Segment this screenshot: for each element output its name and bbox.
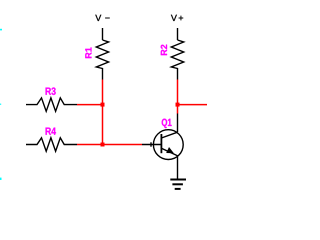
resistor R4 bbox=[26, 128, 77, 152]
resistor R2 bbox=[161, 40, 184, 80]
Q1 base pin lead bbox=[142, 144, 161, 146]
resistor R1 bbox=[85, 40, 108, 80]
ground bar 1 bbox=[170, 179, 186, 181]
ground bbox=[170, 180, 186, 189]
value label R1 bbox=[85, 47, 91, 58]
value label R4 bbox=[46, 128, 56, 135]
wire R2 output down bbox=[177, 80, 179, 114]
power net V+ label bbox=[171, 15, 183, 21]
wire V- stub bbox=[102, 28, 104, 40]
transistor Q1 bbox=[142, 114, 183, 160]
Q1 body circle bbox=[153, 130, 183, 160]
margin tick cyan bottom bbox=[0, 178, 2, 180]
value label R3 bbox=[46, 87, 56, 94]
ref label Q1 bbox=[162, 119, 172, 128]
value label R2 bbox=[161, 45, 167, 56]
wire R4 output to base bbox=[77, 144, 142, 146]
margin tick cyan top bbox=[0, 29, 2, 31]
Q1 base pin end tick bbox=[150, 142, 152, 146]
Q1 collector diagonal bbox=[161, 132, 177, 138]
resistor R4 zigzag body bbox=[26, 138, 77, 151]
wire V+ stub bbox=[177, 28, 179, 40]
Q1 collector pin bbox=[177, 114, 179, 133]
margin tick cyan middle bbox=[0, 104, 1, 105]
junction node R3/left net bbox=[101, 103, 105, 107]
Q1 base bar bbox=[160, 134, 162, 153]
wire R3 output to node bbox=[77, 104, 103, 106]
ground bar 3 bbox=[175, 188, 181, 190]
resistor R3 bbox=[26, 87, 77, 111]
Q1 emitter diagonal bbox=[161, 148, 177, 156]
wire emitter to ground bbox=[177, 156, 179, 180]
ground bar 2 bbox=[172, 183, 183, 185]
power net V- label bbox=[95, 15, 109, 21]
Q1 emitter arrow bbox=[166, 147, 174, 153]
resistor R3 zigzag body bbox=[26, 98, 77, 111]
junction node collector net bbox=[176, 103, 180, 107]
wire collector net right bbox=[178, 104, 208, 106]
resistor R2 zigzag body bbox=[171, 40, 183, 80]
resistor R1 zigzag body bbox=[96, 40, 108, 80]
wire left vertical net bbox=[102, 80, 104, 145]
junction node R4/left net bbox=[101, 143, 105, 147]
